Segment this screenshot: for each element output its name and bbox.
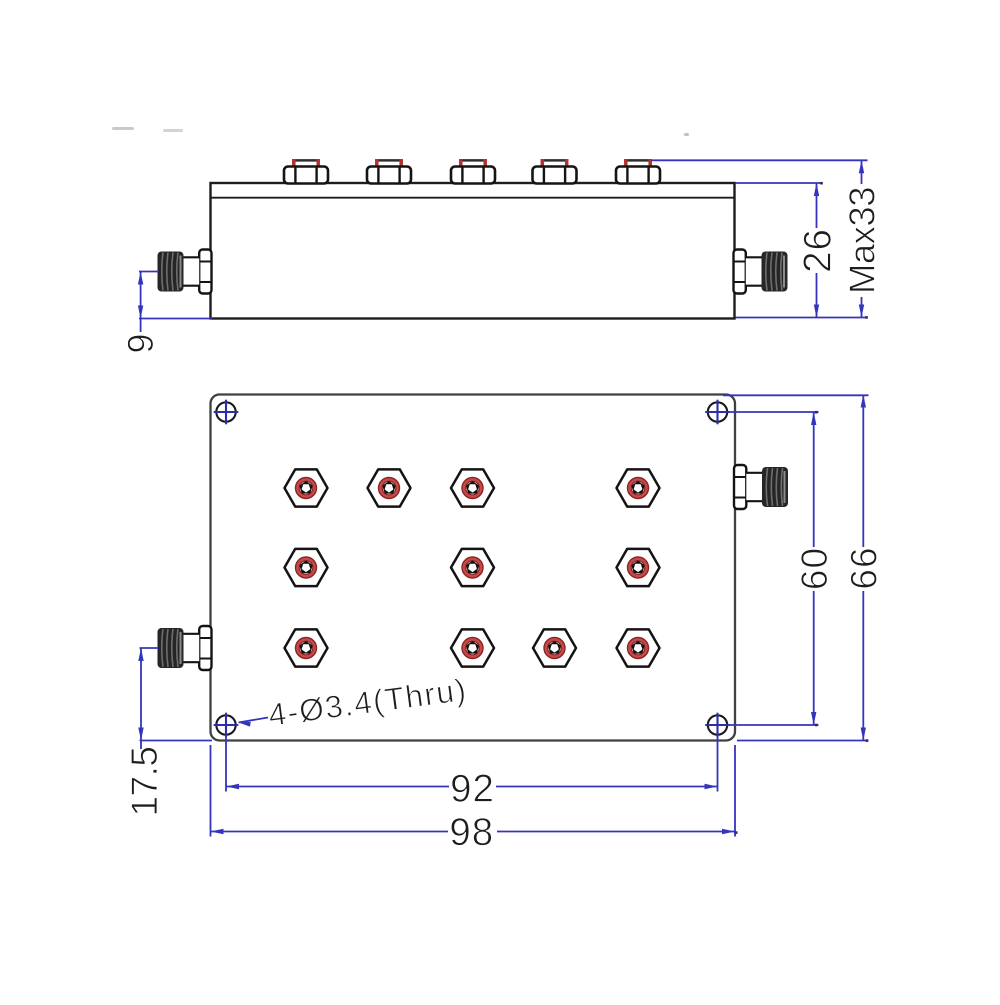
svg-text:17.5: 17.5	[124, 746, 165, 816]
svg-text:Max33: Max33	[842, 187, 883, 294]
svg-text:92: 92	[450, 768, 495, 811]
svg-text:66: 66	[844, 546, 885, 589]
svg-text:60: 60	[794, 547, 835, 590]
svg-text:9: 9	[120, 332, 161, 353]
svg-text:26: 26	[796, 228, 839, 273]
svg-text:98: 98	[449, 811, 494, 854]
